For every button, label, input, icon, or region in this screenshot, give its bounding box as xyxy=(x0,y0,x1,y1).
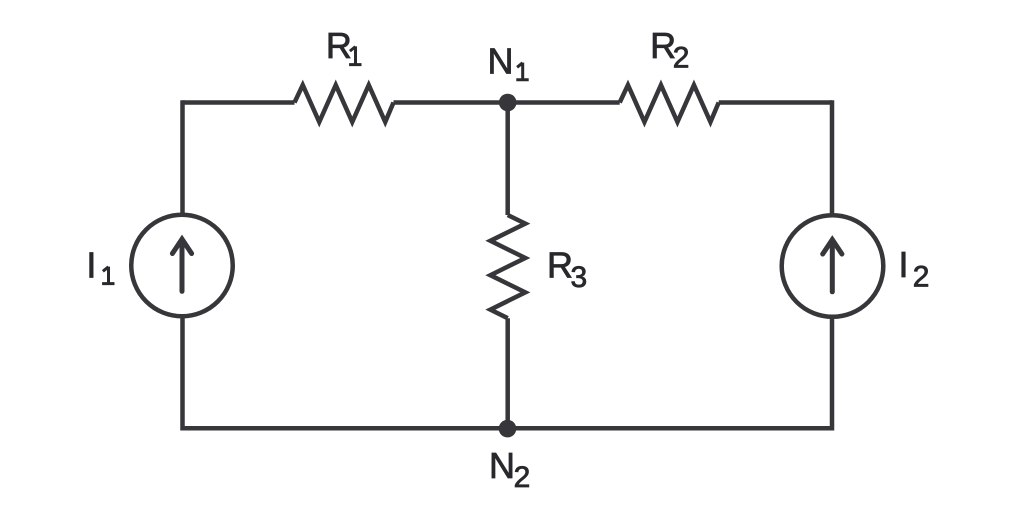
svg-text:3: 3 xyxy=(571,261,588,294)
wire left vertical upper xyxy=(180,100,185,215)
label N1 subscript 1 xyxy=(516,63,528,80)
resistor R1 xyxy=(295,85,394,122)
resistor R3 xyxy=(490,215,525,318)
wire right vertical upper xyxy=(830,100,835,215)
current source I1 circle xyxy=(131,215,233,317)
node N2 dot xyxy=(499,420,517,438)
svg-text:2: 2 xyxy=(673,41,690,74)
label I1 subscript 1 xyxy=(102,267,114,284)
svg-text:I: I xyxy=(86,245,96,286)
svg-text:R: R xyxy=(326,25,352,66)
arrow I2 head xyxy=(823,240,842,254)
wire left vertical lower xyxy=(180,316,185,430)
resistor R2 xyxy=(620,85,719,122)
svg-text:R: R xyxy=(547,244,573,285)
svg-text:N: N xyxy=(489,445,515,486)
arrow I1 head xyxy=(172,239,191,253)
wire middle vertical lower xyxy=(505,318,510,428)
svg-text:N: N xyxy=(488,41,514,82)
arrow I1 shaft xyxy=(180,242,185,292)
wire bottom horizontal xyxy=(183,426,833,431)
svg-text:I: I xyxy=(899,244,909,285)
svg-text:2: 2 xyxy=(514,461,531,494)
current source I2 circle xyxy=(782,215,884,317)
wire right vertical lower xyxy=(830,317,835,431)
arrow I2 shaft xyxy=(830,242,835,292)
wire middle vertical upper xyxy=(505,103,510,216)
wire top-right horizontal xyxy=(719,100,832,105)
wire top-center horizontal xyxy=(394,100,620,105)
node N1 dot xyxy=(499,94,517,112)
wire top-left horizontal xyxy=(183,100,295,105)
svg-text:2: 2 xyxy=(913,261,930,294)
label R1 subscript 1 xyxy=(349,46,361,64)
